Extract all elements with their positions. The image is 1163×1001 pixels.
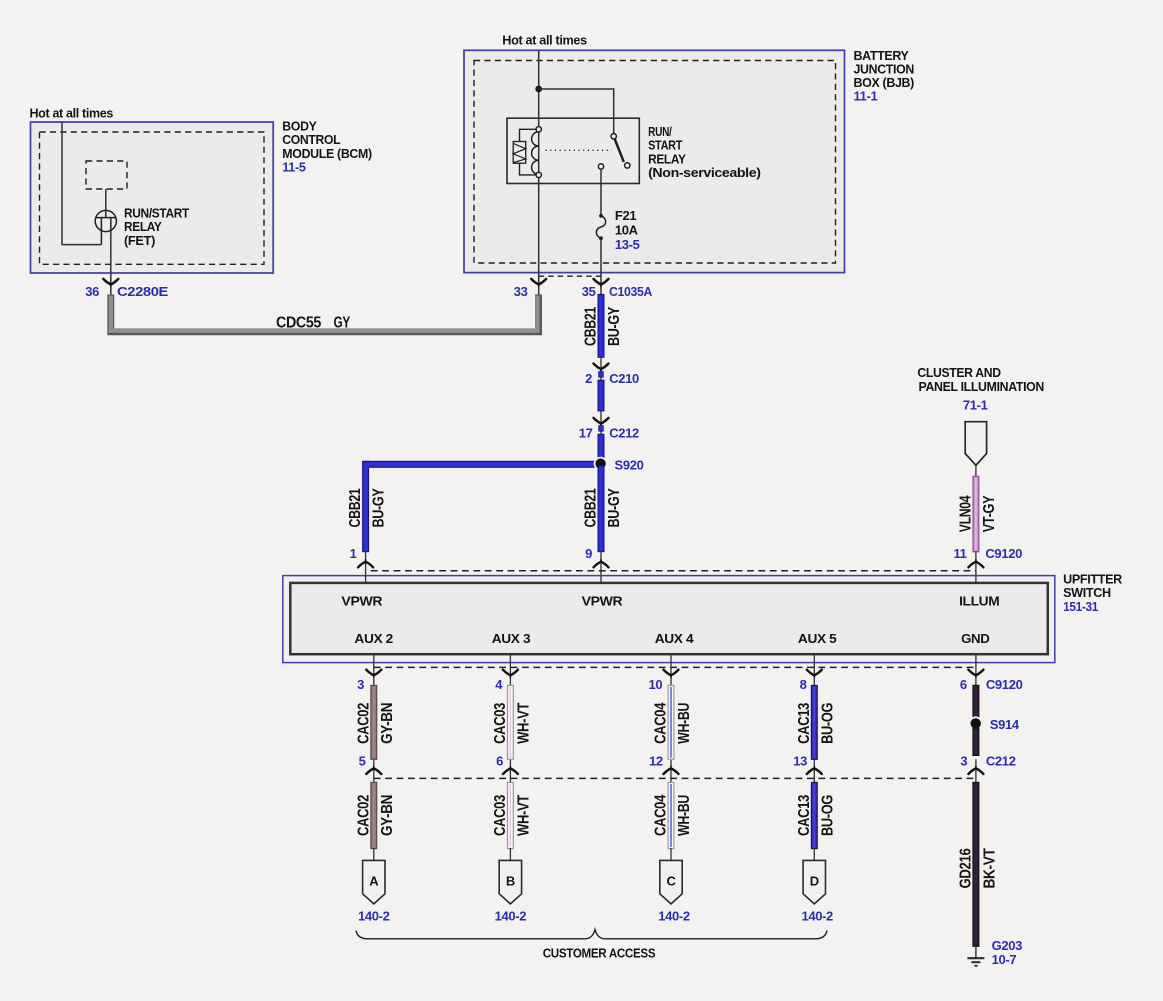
svg-text:4: 4 — [495, 677, 503, 692]
wire stub ILLUM pin11 inside — [975, 576, 977, 584]
svg-text:(Non-serviceable): (Non-serviceable) — [648, 165, 761, 180]
wire GD216 BK-VT (long run to ground) — [973, 782, 979, 946]
wire CBB21 segment C — [598, 434, 604, 462]
wire stub pin11 — [975, 551, 977, 576]
dashed internal block — [86, 161, 127, 189]
svg-text:Hot at all times: Hot at all times — [30, 105, 114, 120]
connector tick C210 — [599, 372, 604, 378]
svg-text:S914: S914 — [990, 717, 1020, 732]
svg-text:CAC02: CAC02 — [355, 795, 372, 836]
svg-text:G203: G203 — [992, 938, 1023, 953]
wire CBB21 BU-GY segment A — [598, 295, 604, 358]
pin 3 arrow — [366, 670, 381, 678]
svg-text:9: 9 — [585, 546, 592, 561]
terminal B — [499, 860, 521, 904]
wire CAC04 WH-BU (upper) — [668, 685, 674, 759]
ground G203 symbol — [967, 958, 984, 966]
svg-text:VT-GY: VT-GY — [981, 495, 998, 532]
wire stub terminal D — [813, 848, 815, 860]
label RUN/START RELAY (FET) — [124, 206, 189, 248]
wire CBB21 segment B — [598, 380, 604, 411]
svg-text:ILLUM: ILLUM — [959, 594, 999, 609]
svg-text:WH-VT: WH-VT — [515, 794, 532, 836]
brace customer access — [356, 930, 827, 939]
svg-text:C212: C212 — [986, 754, 1016, 769]
svg-text:GY-BN: GY-BN — [379, 703, 396, 744]
svg-text:CAC13: CAC13 — [796, 702, 813, 743]
wire CAC13 BU-OG (upper) — [811, 685, 817, 759]
svg-text:GND: GND — [961, 631, 989, 646]
dashed boundary BCM — [40, 132, 265, 264]
svg-text:Hot at all times: Hot at all times — [502, 32, 587, 47]
svg-text:S920: S920 — [615, 458, 644, 473]
svg-text:CAC04: CAC04 — [653, 702, 670, 743]
label CLUSTER AND PANEL ILLUMINATION 71-1 — [917, 365, 1044, 412]
wire fuse to pin 35 — [600, 238, 602, 295]
splice S920 — [594, 457, 608, 471]
svg-text:CAC03: CAC03 — [492, 795, 509, 836]
svg-text:CDC55: CDC55 — [276, 315, 321, 332]
svg-text:AUX 5: AUX 5 — [798, 631, 837, 646]
wire stub terminal A — [373, 848, 375, 860]
wire CAC02 GY-BN (lower) — [371, 782, 377, 848]
pin 17 arrow C212 — [594, 418, 609, 426]
wire resistor to coil bottom — [520, 163, 537, 175]
wire stub pin9 — [600, 551, 602, 576]
relay actuation dotted link — [546, 149, 612, 151]
svg-text:8: 8 — [800, 677, 807, 692]
pin 9 arrow — [594, 559, 609, 567]
upfitter switch outer box — [283, 576, 1055, 663]
svg-text:C: C — [666, 873, 676, 888]
wire GD216 BK-VT (mid) — [973, 728, 979, 755]
svg-text:(FET): (FET) — [124, 233, 155, 248]
pin coil terminal bottom — [536, 172, 541, 177]
svg-text:13: 13 — [793, 754, 807, 769]
svg-text:3: 3 — [357, 677, 364, 692]
wire CAC13 BU-OG (lower) — [811, 782, 817, 848]
relay coil arcs — [532, 132, 539, 175]
svg-text:10: 10 — [649, 677, 663, 692]
wire stub pin1 — [365, 551, 367, 576]
svg-text:2: 2 — [585, 371, 592, 386]
switch contact fixed — [611, 134, 616, 139]
svg-text:WH-BU: WH-BU — [676, 703, 693, 744]
wire stub AUX3 out — [509, 654, 511, 782]
wire FET output to pin 36 — [110, 218, 112, 295]
connector tick C212 — [599, 426, 604, 432]
label G203 10-7 — [992, 938, 1023, 967]
wire stub to ground — [975, 946, 977, 958]
wire CDC55 GY (gray) — [111, 295, 539, 332]
terminal A — [363, 860, 385, 904]
connector dashed line (customer access) — [374, 777, 976, 779]
wire stub GND out — [975, 654, 977, 782]
svg-text:CAC04: CAC04 — [653, 795, 670, 836]
svg-text:CLUSTER AND: CLUSTER AND — [917, 365, 1000, 380]
svg-text:AUX 2: AUX 2 — [354, 631, 393, 646]
svg-text:PANEL ILLUMINATION: PANEL ILLUMINATION — [919, 379, 1045, 394]
switch blade end contact — [625, 163, 630, 168]
wire stub AUX2 out — [373, 654, 375, 782]
svg-text:3: 3 — [960, 754, 967, 769]
svg-text:GY-BN: GY-BN — [379, 795, 396, 836]
svg-text:C9120: C9120 — [986, 677, 1023, 692]
label RUN/START RELAY (Non-serviceable) — [648, 124, 761, 180]
svg-text:CBB21: CBB21 — [583, 307, 600, 346]
svg-text:71-1: 71-1 — [963, 397, 988, 412]
pin 10 arrow — [664, 670, 679, 678]
wire dashed block to FET — [105, 189, 107, 218]
svg-text:BU-GY: BU-GY — [606, 306, 623, 346]
pin 2 arrow C210 — [594, 364, 609, 372]
svg-text:36: 36 — [85, 284, 99, 299]
transistor FET Q (run/start relay driver) — [95, 210, 116, 244]
svg-text:VLN04: VLN04 — [957, 495, 974, 532]
svg-text:BK-VT: BK-VT — [981, 848, 998, 889]
svg-text:B: B — [506, 873, 515, 888]
pin 6 arrow — [968, 670, 983, 678]
svg-text:C210: C210 — [609, 371, 639, 386]
dashed boundary BJB — [474, 61, 836, 264]
svg-text:GD216: GD216 — [957, 848, 974, 888]
off-page connector (cluster illumination) — [965, 422, 986, 466]
svg-text:A: A — [369, 873, 379, 888]
svg-text:GY: GY — [334, 315, 351, 332]
connector dashed line (below upfitter switch) — [374, 666, 976, 668]
svg-text:CAC02: CAC02 — [355, 702, 372, 743]
pin 12 arrow — [664, 766, 679, 774]
wire stub into C210 — [600, 357, 602, 380]
connector dashed line (top of upfitter switch) — [371, 570, 976, 572]
switch output contact — [598, 164, 603, 169]
svg-text:10-7: 10-7 — [992, 952, 1017, 967]
label BODY CONTROL MODULE (BCM) 11-5 — [282, 119, 372, 175]
pin coil terminal top — [536, 127, 541, 132]
svg-text:CAC13: CAC13 — [796, 795, 813, 836]
wire stub terminal C — [670, 848, 672, 860]
switch blade — [615, 139, 624, 162]
pin 33 arrow — [531, 279, 546, 287]
wire CAC02 GY-BN (upper) — [371, 685, 377, 759]
wire VLN04 VT-GY (violet) — [973, 476, 979, 552]
wire stub terminal B — [509, 848, 511, 860]
svg-text:C9120: C9120 — [985, 546, 1022, 561]
pin 35 arrow — [594, 279, 609, 287]
node junction dot — [535, 86, 542, 93]
terminal D — [803, 860, 825, 904]
svg-text:BU-GY: BU-GY — [606, 488, 623, 528]
svg-text:6: 6 — [496, 754, 503, 769]
pin 3 arrow (C212 right) — [968, 766, 983, 774]
svg-text:140-2: 140-2 — [801, 908, 833, 923]
resistor (coil suppression) box with zigzag — [513, 142, 526, 164]
svg-text:11: 11 — [953, 546, 966, 561]
wire stub VPWR pin1 inside — [365, 576, 367, 584]
pin 13 arrow — [807, 766, 822, 774]
wire stub pentagon to VLN04 — [975, 465, 977, 476]
svg-text:151-31: 151-31 — [1063, 599, 1098, 614]
wire stub AUX4 out — [670, 654, 672, 782]
svg-text:10A: 10A — [615, 223, 639, 238]
svg-text:BU-OG: BU-OG — [819, 795, 836, 836]
svg-text:140-2: 140-2 — [658, 908, 690, 923]
svg-text:33: 33 — [514, 284, 528, 299]
svg-text:VPWR: VPWR — [582, 594, 624, 609]
svg-text:C212: C212 — [609, 425, 639, 440]
svg-text:CBB21: CBB21 — [583, 488, 600, 527]
wire stub into C212 — [600, 411, 602, 434]
svg-text:11-1: 11-1 — [854, 89, 878, 104]
fuse F21 10A — [596, 214, 605, 240]
svg-text:140-2: 140-2 — [495, 908, 527, 923]
wire CAC03 WH-VT (lower) — [508, 782, 514, 848]
svg-text:CAC03: CAC03 — [492, 702, 509, 743]
pin 8 arrow — [807, 670, 822, 678]
svg-text:CUSTOMER ACCESS: CUSTOMER ACCESS — [543, 946, 656, 961]
wire CBB21 branch to pin 1 — [363, 461, 601, 551]
wire GD216 BK-VT (upper) — [973, 685, 979, 718]
wire branch to relay switch — [539, 89, 614, 134]
svg-text:5: 5 — [359, 754, 366, 769]
label F21 10A 13-5 — [615, 208, 640, 252]
wire hot feed to FET — [62, 123, 101, 245]
pin 6 arrow (lower) — [503, 766, 518, 774]
svg-text:AUX 3: AUX 3 — [492, 631, 531, 646]
pin 36 arrow — [103, 279, 118, 287]
wire stub VPWR pin9 inside — [600, 576, 602, 584]
svg-text:BU-OG: BU-OG — [819, 703, 836, 744]
svg-text:13-5: 13-5 — [615, 237, 640, 252]
wire CAC04 WH-BU (lower) — [668, 782, 674, 848]
svg-text:VPWR: VPWR — [341, 594, 383, 609]
svg-text:WH-VT: WH-VT — [515, 702, 532, 744]
svg-text:17: 17 — [579, 425, 593, 440]
svg-text:CBB21: CBB21 — [347, 488, 364, 527]
pin 5 arrow — [366, 766, 381, 774]
splice S914 — [969, 716, 983, 730]
svg-text:C1035A: C1035A — [609, 284, 653, 299]
svg-text:AUX 4: AUX 4 — [655, 631, 695, 646]
wire resistor to coil top — [520, 129, 537, 141]
connector C1035A dashed link — [539, 275, 601, 277]
svg-text:6: 6 — [960, 677, 967, 692]
terminal C — [660, 860, 682, 904]
wire CAC03 WH-VT (upper) — [508, 685, 514, 759]
wire stub AUX5 out — [813, 654, 815, 782]
pin 4 arrow — [503, 670, 518, 678]
label UPFITTER SWITCH 151-31 — [1063, 571, 1123, 613]
svg-text:F21: F21 — [615, 208, 636, 223]
upfitter switch inner box — [290, 583, 1048, 654]
svg-text:11-5: 11-5 — [282, 160, 305, 175]
wire switch output to fuse — [600, 169, 602, 214]
svg-text:C2280E: C2280E — [117, 284, 169, 299]
svg-text:12: 12 — [649, 754, 663, 769]
wire CBB21 segment to pin 9 — [598, 466, 604, 552]
svg-text:35: 35 — [582, 284, 596, 299]
relay K run/start (box) — [507, 118, 639, 183]
svg-text:140-2: 140-2 — [358, 908, 390, 923]
svg-text:1: 1 — [350, 546, 357, 561]
svg-text:D: D — [810, 873, 819, 888]
module box BCM — [31, 122, 274, 273]
label BATTERY JUNCTION BOX (BJB) 11-1 — [854, 48, 915, 104]
module box BJB — [464, 50, 845, 272]
pin 11 arrow — [968, 559, 983, 567]
pin 1 arrow — [358, 559, 373, 567]
wire battery feed (hot) down to pin 33 — [538, 51, 540, 295]
svg-text:BU-GY: BU-GY — [371, 488, 388, 528]
svg-text:WH-BU: WH-BU — [676, 795, 693, 836]
